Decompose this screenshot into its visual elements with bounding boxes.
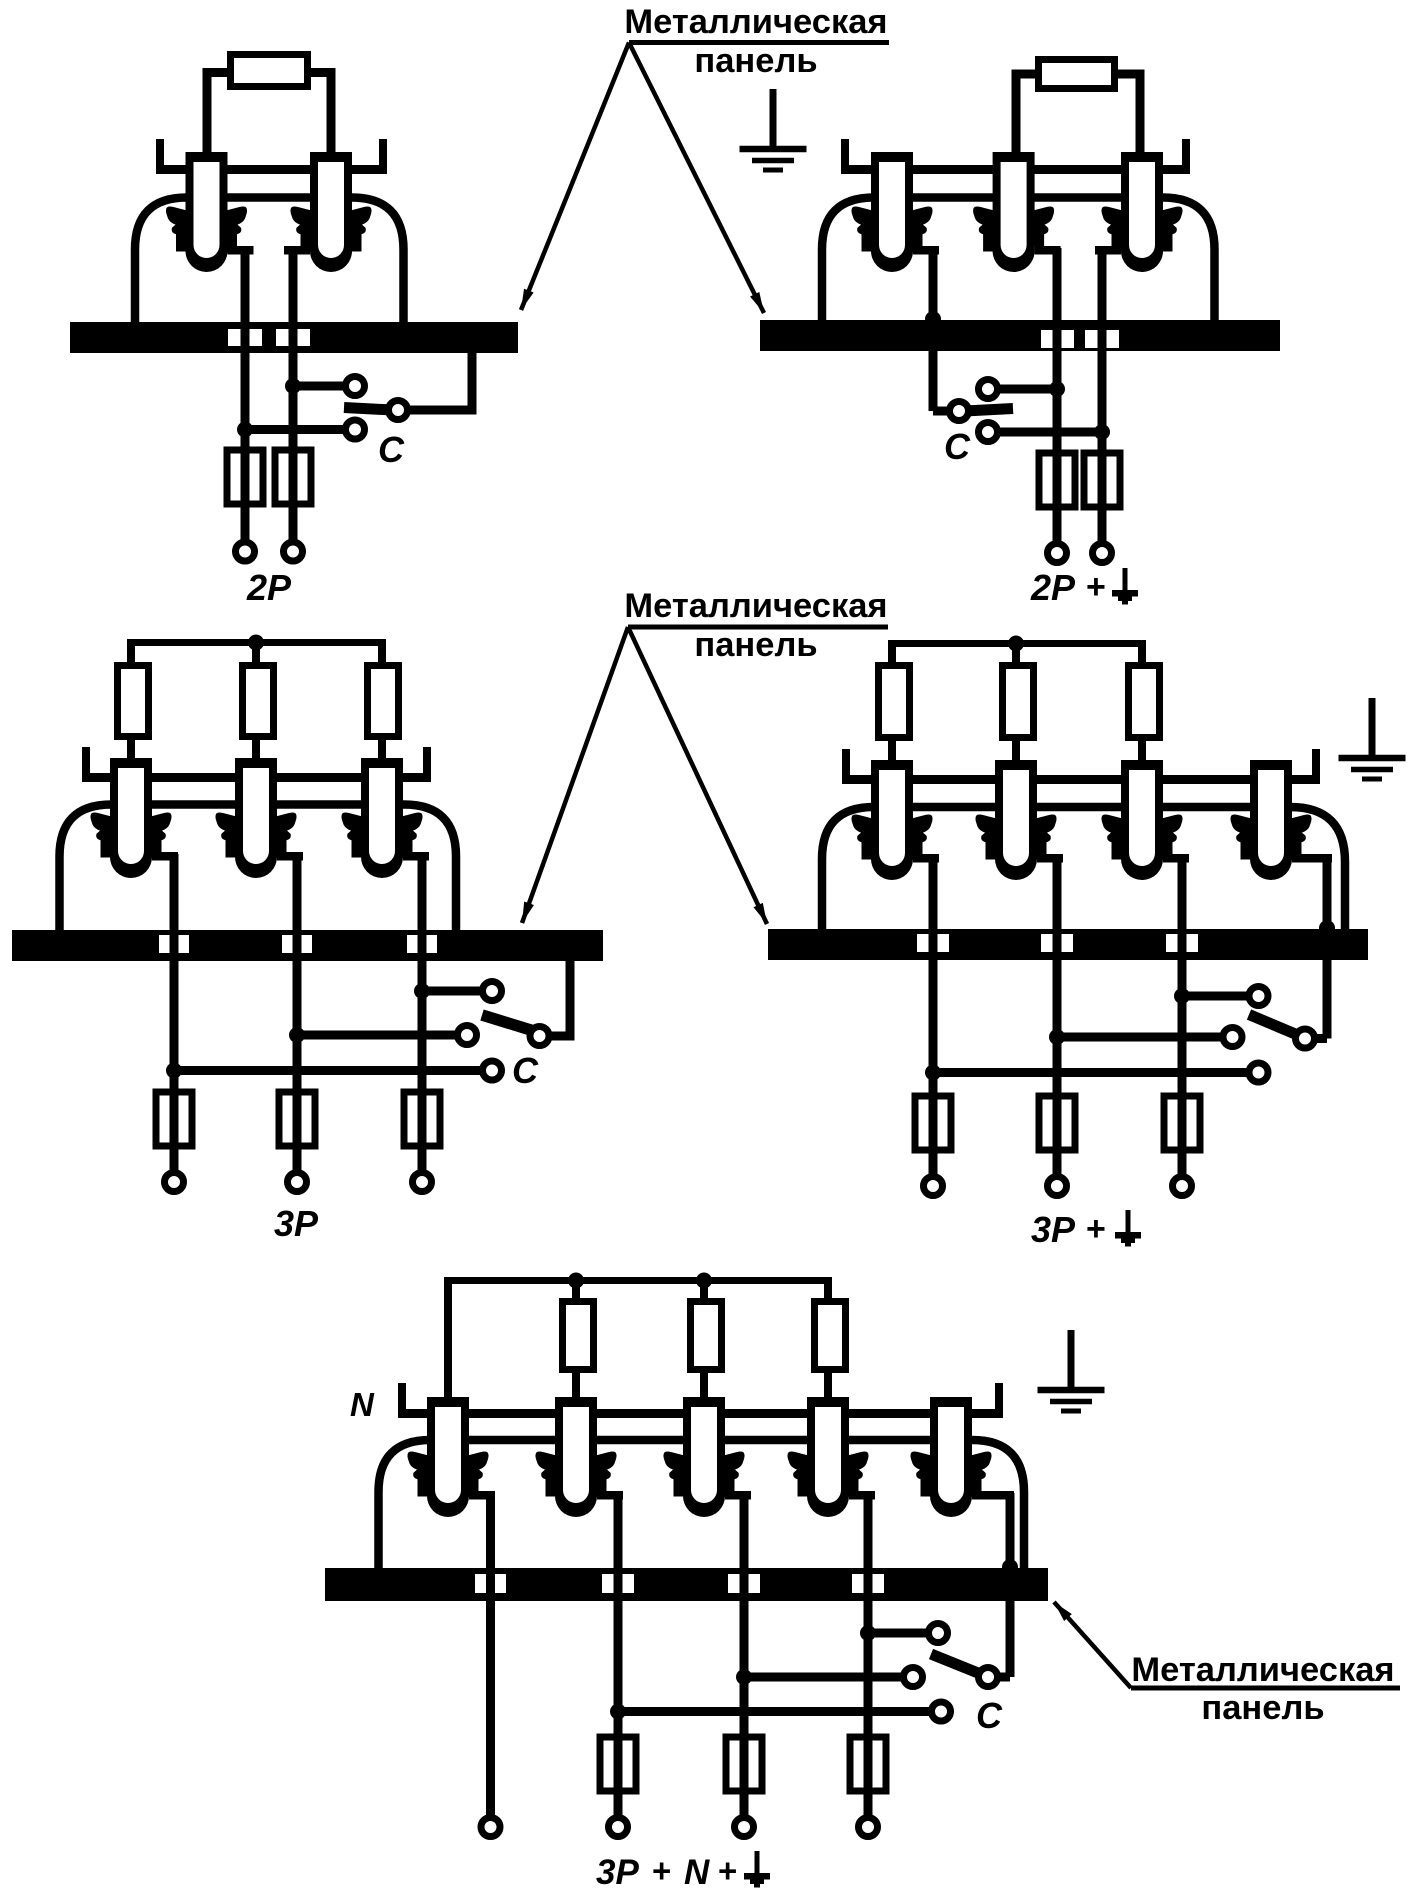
pin P3 <box>1102 760 1183 880</box>
contact step P2 <box>597 1491 623 1500</box>
socket body dome <box>379 1440 1025 1570</box>
svg-text:3P: 3P <box>596 1853 639 1892</box>
wire panel to switch pivot <box>398 351 472 410</box>
junction on pole3 <box>414 983 430 999</box>
wire link pole3 to top contact <box>1182 992 1249 1001</box>
fuse F1 <box>156 1092 192 1146</box>
terminal pole3 <box>1093 544 1112 563</box>
wire pole 2 down <box>289 248 298 551</box>
terminal N <box>481 1818 500 1837</box>
panel hole pole3 <box>1166 934 1198 952</box>
plug bracket left <box>82 747 90 782</box>
wire link pole2 to middle contact <box>297 1031 457 1040</box>
resistor R3 <box>368 666 399 737</box>
switch middle contact <box>1223 1028 1242 1047</box>
plug bracket right <box>1182 139 1190 174</box>
contact step P3 <box>1095 246 1121 255</box>
switch C top contact <box>979 380 998 399</box>
wire pole 2 down <box>614 1493 623 1827</box>
plug bracket left <box>842 749 850 784</box>
plug cover bar <box>842 775 1320 784</box>
wire pole 1 down <box>170 854 179 1182</box>
bus wire over resistors <box>889 640 1146 647</box>
wire pole 3 down <box>740 1493 749 1827</box>
terminal pole3 <box>735 1818 754 1837</box>
pin P3 <box>664 1397 745 1517</box>
pin P2 <box>536 1397 617 1517</box>
switch lever <box>1249 1015 1300 1037</box>
fuse F1 <box>1039 453 1075 507</box>
panel hole pole2 <box>1041 330 1074 348</box>
plug bracket right <box>423 747 431 782</box>
junction on pole1 <box>237 422 253 438</box>
panel hole pole2 <box>282 935 312 953</box>
resistor R1 <box>563 1302 594 1370</box>
socket body dome <box>822 198 1215 323</box>
contact step P2 <box>277 852 303 861</box>
wire resistor to pin P3 <box>1116 74 1140 152</box>
switch C lever <box>344 408 392 411</box>
switch C middle contact <box>458 1026 477 1045</box>
leader arrow to panel 3 <box>522 627 628 923</box>
contact step P3 <box>403 852 429 861</box>
wire pole2 through hole <box>1053 320 1062 351</box>
switch C lever <box>965 409 1013 412</box>
wire N pole down <box>486 1493 495 1827</box>
contact step P1 <box>152 852 178 861</box>
plug bracket right <box>995 1383 1003 1418</box>
fuse F3 <box>850 1737 886 1791</box>
earth wire P5 down <box>1006 1493 1015 1677</box>
bus wire over resistors <box>128 639 386 646</box>
resistor R2 <box>691 1302 722 1370</box>
leader arrow to panel 2 <box>629 43 764 314</box>
metal panel 2 <box>760 320 1280 351</box>
pin P1 <box>166 152 247 272</box>
junction on pole4 <box>860 1625 876 1641</box>
svg-text:+: + <box>1086 1210 1106 1248</box>
leader arrow to panel 5 <box>1054 1602 1131 1688</box>
switch C pivot contact <box>530 1027 549 1046</box>
wire pole 3 down <box>1178 856 1187 1186</box>
switch C lever <box>482 1015 534 1031</box>
fuse F2 <box>279 1092 315 1146</box>
junction on pole1 <box>925 1065 941 1081</box>
terminal pole1 <box>236 542 255 561</box>
wire resistor to pin P2 <box>309 73 331 153</box>
switch C middle contact <box>904 1668 923 1687</box>
wire pole3 through hole <box>418 930 427 961</box>
pin P4 earth <box>1231 760 1312 880</box>
contact step P5 (extended) <box>972 1491 1014 1500</box>
svg-text:панель: панель <box>694 626 817 664</box>
wire pole 2 down <box>1053 856 1062 1186</box>
panel hole pole2 <box>276 329 310 346</box>
earth wire P4 down <box>1323 856 1332 1039</box>
svg-text:C: C <box>378 429 405 470</box>
wire panel to pivot <box>540 959 571 1036</box>
wire bus to pin P1 <box>127 639 135 758</box>
switch C bottom contact <box>932 1702 951 1721</box>
wire N through hole <box>486 1568 495 1601</box>
wire bus to pin P2 <box>252 639 260 758</box>
contact step P1 <box>228 246 254 255</box>
junction on pole3 <box>1094 424 1110 440</box>
contact step P3 <box>1163 854 1189 863</box>
terminal pole2 <box>1048 544 1067 563</box>
svg-text:Металлическая: Металлическая <box>624 587 887 625</box>
junction on pole2 <box>610 1704 626 1720</box>
junction on pole2 <box>1049 1029 1065 1045</box>
ground symbol <box>1038 1330 1105 1411</box>
resistor R3 <box>815 1302 846 1370</box>
junction earth wire on panel <box>1319 920 1335 936</box>
fuse F2 <box>275 450 311 504</box>
fuse F3 <box>1164 1096 1200 1150</box>
wire pole2 through hole <box>614 1568 623 1601</box>
pin P1 <box>852 760 933 880</box>
pin P2 <box>973 152 1054 272</box>
pin P1 <box>91 758 172 878</box>
terminal pole3 <box>413 1173 432 1192</box>
panel hole pole2 <box>1041 934 1073 952</box>
leader underline <box>629 40 889 45</box>
metal panel 4 <box>768 929 1368 960</box>
svg-text:панель: панель <box>694 42 817 80</box>
contact step P1 <box>913 246 939 255</box>
fuse F1 <box>915 1096 951 1150</box>
plug bracket left <box>156 139 164 174</box>
wire bus to pin P3 <box>1138 640 1146 760</box>
metal panel 5 <box>325 1568 1048 1601</box>
wire link pole3 to top contact <box>422 987 482 996</box>
resistor R3 <box>1129 666 1160 738</box>
wire pole 4 down <box>864 1493 873 1827</box>
wire pole 2 down <box>1053 248 1062 553</box>
wire pole1 through hole <box>929 929 938 960</box>
leader underline <box>1131 1686 1400 1691</box>
wire pole1 through hole <box>241 322 250 353</box>
wire earth to pivot <box>1305 1034 1327 1043</box>
leader arrow to panel 1 <box>521 43 629 311</box>
socket body dome <box>822 807 1345 931</box>
pin P2 (mirrored) <box>291 152 372 272</box>
panel hole pole3 <box>1085 330 1119 348</box>
wire link pole1 to bottom contact <box>174 1066 482 1075</box>
wire link pole1 to switch bottom contact <box>245 425 345 434</box>
plug bracket left <box>841 139 849 174</box>
ground symbol <box>740 89 807 170</box>
pin P3 (mirrored) <box>1102 152 1183 272</box>
wire link bottom contact to pole3 <box>988 428 1102 437</box>
panel hole pole4 <box>852 1574 884 1593</box>
svg-text:3P: 3P <box>1031 1209 1076 1250</box>
contact step P4 <box>849 1491 875 1500</box>
panel hole pole1 <box>917 934 949 952</box>
contact step P2 <box>1037 854 1063 863</box>
terminal pole2 <box>284 542 303 561</box>
switch C pivot contact <box>950 402 969 421</box>
svg-text:C: C <box>976 1695 1003 1736</box>
wire pole3 through hole <box>1178 929 1187 960</box>
contact step P2 <box>284 246 310 255</box>
junction on pole2 <box>1049 381 1065 397</box>
wire bus to pin P1 (N) <box>444 1277 452 1397</box>
wire link pole2 to middle contact <box>1057 1033 1223 1042</box>
wire pole 3 down <box>418 854 427 1182</box>
wire earth to pivot <box>988 1673 1010 1682</box>
wire pole3 through hole <box>740 1568 749 1601</box>
svg-text:Металлическая: Металлическая <box>1131 1651 1394 1689</box>
panel hole pole3 <box>728 1574 760 1593</box>
pin P5 earth <box>911 1397 992 1517</box>
resistor load R (horizontal) <box>231 55 308 87</box>
wire bus to pin P3 <box>700 1277 708 1397</box>
switch pivot contact <box>1296 1029 1315 1048</box>
switch C top contact <box>483 982 502 1001</box>
terminal pole1 <box>924 1177 943 1196</box>
terminal pole1 <box>165 1173 184 1192</box>
ground symbol <box>1339 698 1406 779</box>
plug cover bar <box>398 1409 1003 1418</box>
wire bus to pin P4 <box>824 1277 832 1397</box>
wire link pole1 to bottom contact <box>933 1068 1249 1077</box>
svg-text:2P: 2P <box>1030 567 1076 608</box>
pin P4 <box>788 1397 869 1517</box>
contact step P1 <box>913 854 939 863</box>
switch C top contact <box>929 1624 948 1643</box>
contact step P2 <box>1035 246 1061 255</box>
svg-text:3P: 3P <box>274 1203 319 1244</box>
wire pole 3 down <box>1098 248 1107 553</box>
switch bottom contact <box>1249 1063 1268 1082</box>
junction on pole3 <box>1174 988 1190 1004</box>
svg-text:C: C <box>944 426 971 467</box>
svg-text:панель: панель <box>1201 1689 1324 1727</box>
svg-text:+: + <box>1086 568 1106 606</box>
junction on pole1 <box>166 1063 182 1079</box>
svg-text:N: N <box>350 1386 375 1423</box>
wire pole 1 down <box>929 856 938 1186</box>
panel hole pole1 <box>228 329 262 346</box>
svg-text:C: C <box>512 1050 539 1091</box>
resistor R2 <box>1003 666 1034 738</box>
terminal pole2 <box>609 1818 628 1837</box>
junction on bus at P2 <box>568 1273 584 1289</box>
plug bracket left <box>398 1383 406 1418</box>
plug cover bar <box>158 165 387 174</box>
junction on bus <box>1008 636 1024 652</box>
junction on bus at P3 <box>696 1273 712 1289</box>
pin P1 N <box>408 1397 489 1517</box>
plug bracket right <box>379 139 387 174</box>
socket body dome <box>135 198 404 325</box>
switch C pivot contact <box>389 401 408 420</box>
wire pole1 through hole <box>170 930 179 961</box>
wire pole2 through hole <box>1053 929 1062 960</box>
plug bracket right <box>1312 749 1320 784</box>
wire link pole4 to top contact <box>868 1629 928 1638</box>
terminal pole2 <box>1048 1177 1067 1196</box>
resistor R2 <box>243 666 274 737</box>
wire pole 1 down <box>241 248 250 551</box>
wire pole 2 down <box>293 854 302 1182</box>
junction on pole2 <box>285 378 301 394</box>
earth wire down to panel and switch <box>929 248 938 411</box>
resistor load R (horizontal) <box>1039 60 1115 89</box>
wire resistor to pin P1 <box>207 73 229 153</box>
junction on pole3 <box>736 1669 752 1685</box>
svg-text:+: + <box>718 1852 737 1889</box>
fuse F2 <box>1084 453 1120 507</box>
svg-text:2P: 2P <box>246 567 292 608</box>
switch C pivot contact <box>979 1668 998 1687</box>
junction on bus <box>248 635 264 651</box>
junction on pole2 <box>289 1027 305 1043</box>
switch C top contact <box>346 377 365 396</box>
wire link pole2 to bottom contact <box>618 1707 931 1716</box>
wire link top contact to pole2 <box>988 385 1057 394</box>
bus wire over resistors <box>444 1277 828 1284</box>
wire pole2 through hole <box>289 322 298 353</box>
pin P3 <box>342 758 423 878</box>
panel hole N <box>475 1574 506 1593</box>
wire bus to pin P1 <box>888 640 896 760</box>
junction earth wire on panel <box>1002 1559 1018 1575</box>
fuse F2 <box>726 1737 762 1791</box>
fuse F2 <box>1039 1096 1075 1150</box>
switch top contact <box>1249 987 1268 1006</box>
svg-text:N: N <box>684 1853 710 1892</box>
wire pole3 through hole <box>1098 320 1107 351</box>
wire link pole2 to switch top contact <box>293 382 345 391</box>
wire pole4 through hole <box>864 1568 873 1601</box>
metal panel 3 <box>12 930 603 961</box>
switch C lever <box>931 1654 983 1675</box>
wire earth to pivot <box>933 407 959 416</box>
pin P2 <box>976 760 1057 880</box>
pin P1 earth <box>852 152 933 272</box>
wire bus to pin P3 <box>378 639 386 758</box>
panel hole pole3 <box>407 935 437 953</box>
terminal pole4 <box>859 1818 878 1837</box>
wire resistor to pin P2 <box>1016 74 1037 152</box>
socket body dome <box>60 805 457 933</box>
pin P2 <box>216 758 297 878</box>
svg-text:Металлическая: Металлическая <box>624 3 887 41</box>
fuse F1 <box>227 450 263 504</box>
wire bus to pin P2 <box>572 1277 580 1397</box>
switch C bottom contact <box>979 423 998 442</box>
wire bus to pin P2 <box>1012 640 1020 760</box>
wire link pole3 to middle contact <box>744 1673 903 1682</box>
contact step P1 <box>469 1491 495 1500</box>
wire pole2 through hole <box>293 930 302 961</box>
metal panel 1 <box>70 322 518 353</box>
resistor R1 <box>879 666 910 738</box>
contact step P3 <box>725 1491 751 1500</box>
svg-text:+: + <box>652 1852 671 1889</box>
fuse F1 <box>600 1737 636 1791</box>
terminal pole3 <box>1173 1177 1192 1196</box>
terminal pole2 <box>288 1173 307 1192</box>
switch C bottom contact <box>346 420 365 439</box>
leader underline <box>628 625 888 630</box>
junction earth wire on panel <box>925 311 941 327</box>
plug cover bar <box>82 773 431 782</box>
plug cover bar <box>841 165 1190 174</box>
switch C bottom contact <box>483 1061 502 1080</box>
panel hole pole1 <box>159 935 189 953</box>
resistor R1 <box>118 666 149 737</box>
contact step P4 (extended) <box>1292 854 1332 863</box>
fuse F3 <box>404 1092 440 1146</box>
panel hole pole2 <box>602 1574 634 1593</box>
leader arrow to panel 4 <box>628 627 767 924</box>
